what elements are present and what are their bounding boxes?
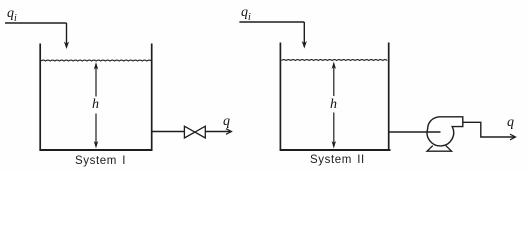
wire pump outlet stub <box>463 122 515 137</box>
wire inlet vertical System I <box>66 23 68 44</box>
wire valve to q arrow <box>205 131 230 133</box>
wire inlet vertical System II <box>303 22 305 44</box>
tank II bottom <box>280 149 391 151</box>
pump P1 volute body <box>427 117 463 146</box>
h arrowhead down tank II <box>332 141 336 149</box>
wire inlet horizontal System I <box>5 22 67 24</box>
water surface wavy line tank II <box>282 59 388 62</box>
label q_i System I <box>7 6 17 24</box>
open arrowhead q System II <box>510 134 516 140</box>
tank I bottom <box>39 149 152 151</box>
h dimension line tank II upper segment <box>333 64 335 97</box>
water surface wavy line tank I <box>41 59 151 62</box>
tank II left wall <box>279 43 281 151</box>
tank I right wall <box>151 44 153 151</box>
tank I left wall <box>39 44 41 151</box>
valve V1 bowtie <box>184 126 205 138</box>
label System II <box>310 154 365 166</box>
wire outlet tank I to valve <box>153 131 185 133</box>
label System I <box>75 155 126 167</box>
h dimension line tank I upper segment <box>95 64 97 97</box>
wire inlet horizontal System II <box>239 21 304 23</box>
inlet arrowhead System I <box>64 42 69 50</box>
pump base stand <box>427 146 452 152</box>
h dimension line tank II lower segment <box>333 113 335 147</box>
label q System II <box>507 115 514 131</box>
h arrowhead up tank I <box>94 62 98 70</box>
label h System I <box>92 97 99 113</box>
tank II right wall <box>388 43 390 151</box>
label h System II <box>330 97 337 113</box>
label q_i System II <box>241 5 251 23</box>
h arrowhead up tank II <box>332 62 336 70</box>
wire outlet tank II to pump <box>390 131 441 133</box>
h arrowhead down tank I <box>94 141 98 149</box>
label q System I <box>223 114 230 130</box>
h dimension line tank I lower segment <box>95 114 97 147</box>
open arrowhead q System I <box>226 129 232 135</box>
inlet arrowhead System II <box>302 41 307 49</box>
